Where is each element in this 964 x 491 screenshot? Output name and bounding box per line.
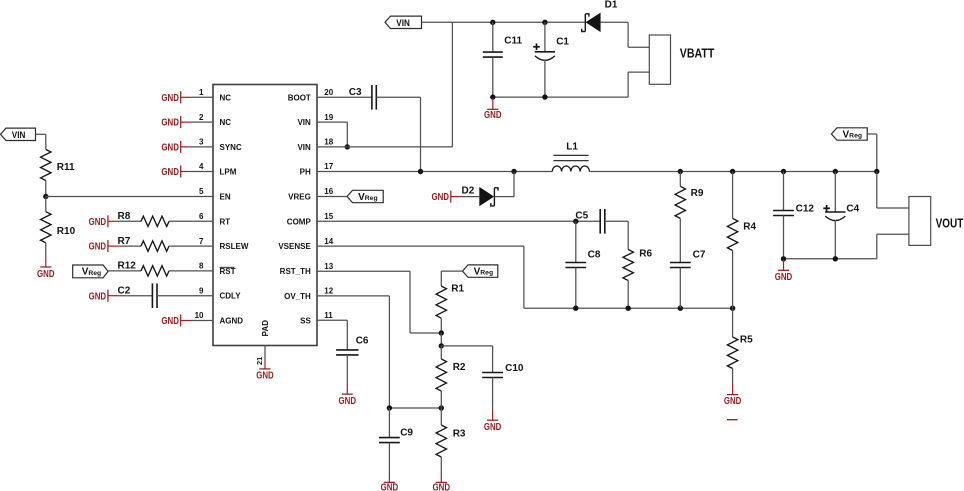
resistor R5 <box>727 308 753 368</box>
svg-text:VREG: VREG <box>288 193 311 202</box>
vreg port R12 <box>73 265 108 278</box>
wire vin to R11 <box>36 134 46 149</box>
wire D1 to VBATT <box>601 22 650 47</box>
svg-text:GND: GND <box>37 269 55 280</box>
resistor R3 <box>436 425 466 457</box>
svg-text:VIN: VIN <box>297 143 311 152</box>
pin 10 AGND label and number <box>195 311 244 325</box>
svg-text:R4: R4 <box>743 221 756 232</box>
svg-text:GND: GND <box>89 291 107 302</box>
diode D2 schottky <box>462 186 499 207</box>
wire pin 1 <box>192 96 213 98</box>
svg-text:RSLEW: RSLEW <box>220 242 249 251</box>
svg-text:19: 19 <box>324 113 333 122</box>
capacitor C6 <box>336 335 369 355</box>
svg-text:VSENSE: VSENSE <box>278 242 311 251</box>
svg-text:GND: GND <box>775 272 793 283</box>
vin port top <box>385 16 422 29</box>
wire C2 to pin 9 <box>157 295 213 297</box>
svg-text:13: 13 <box>324 262 333 271</box>
node R6 rail <box>626 306 631 311</box>
vreg port R1 <box>463 265 498 278</box>
svg-text:8: 8 <box>199 262 204 271</box>
wire VBATT lower <box>628 72 649 97</box>
wire pin 3 <box>192 146 213 148</box>
svg-text:C7: C7 <box>693 250 706 261</box>
node C12 on rail <box>781 169 786 174</box>
wire R11 to EN node <box>45 181 47 197</box>
svg-text:9: 9 <box>199 286 204 295</box>
connector VOUT <box>909 197 963 246</box>
wire gnd to C2 <box>119 295 152 297</box>
pin 17 PH label and number <box>300 162 334 176</box>
pin 19 VIN label and number <box>297 113 333 127</box>
wire C5 to R6 <box>605 221 628 249</box>
svg-text:VBATT: VBATT <box>680 45 715 60</box>
wire pin 12 OV_TH <box>317 296 389 408</box>
pin 6 RT label and number <box>199 212 230 226</box>
svg-text:OV_TH: OV_TH <box>284 292 311 301</box>
wire node to R2 <box>440 346 442 359</box>
svg-text:VOUT: VOUT <box>936 215 964 230</box>
op-amp U1 regulator IC body <box>213 85 317 346</box>
capacitor C9 <box>379 408 413 443</box>
svg-text:C2: C2 <box>118 286 131 297</box>
node C1 bottom <box>542 94 547 99</box>
node C1 top <box>542 20 547 25</box>
pin 8 RST label and number <box>199 262 236 276</box>
resistor R7 <box>118 236 170 251</box>
wire L1 to output rail <box>589 171 876 173</box>
svg-text:GND: GND <box>89 242 107 253</box>
pin 2 NC label and number <box>199 113 231 127</box>
svg-text:VIN: VIN <box>12 130 26 141</box>
pin 9 CDLY label and number <box>199 286 241 300</box>
pin 21 PAD label <box>261 320 270 337</box>
node D2 on PH <box>511 169 516 174</box>
svg-text:NC: NC <box>220 93 232 102</box>
svg-text:GND: GND <box>256 370 274 381</box>
node C4 bottom <box>833 256 838 261</box>
ground tick pin 3 <box>161 141 192 154</box>
svg-text:D2: D2 <box>462 186 475 197</box>
node C11 bottom <box>490 94 495 99</box>
ground tick pin 1 <box>161 91 192 104</box>
capacitor C3 <box>349 85 377 110</box>
node R4 on PH <box>730 169 735 174</box>
svg-text:R9: R9 <box>691 188 704 199</box>
ground below R10 <box>37 243 55 280</box>
pin 1 NC label and number <box>199 88 231 102</box>
pin 13 RST_TH label and number <box>280 262 334 276</box>
wire ovth rail <box>389 407 441 409</box>
resistor R8 <box>118 211 170 226</box>
svg-text:GND: GND <box>161 167 179 178</box>
resistor R6 <box>623 249 653 281</box>
wire vreg to R12 <box>108 270 141 272</box>
resistor R12 <box>118 261 170 276</box>
node vout branch <box>874 169 879 174</box>
svg-text:10: 10 <box>195 311 204 320</box>
ground tick pin 9 <box>89 290 120 303</box>
capacitor C5 <box>575 209 604 234</box>
node C11 top <box>490 20 495 25</box>
vreg port top right <box>831 128 867 141</box>
svg-text:6: 6 <box>199 212 204 221</box>
svg-text:VIN: VIN <box>297 118 311 127</box>
svg-text:CDLY: CDLY <box>220 292 242 301</box>
svg-text:16: 16 <box>324 187 333 196</box>
pin 18 VIN label and number <box>297 138 333 152</box>
ground pin 21 <box>256 359 274 382</box>
svg-text:17: 17 <box>324 162 333 171</box>
svg-text:C12: C12 <box>796 203 815 214</box>
svg-text:D1: D1 <box>605 0 618 10</box>
wire R8 to pin 6 <box>169 220 213 222</box>
ground tick pin 2 <box>161 116 192 129</box>
svg-text:GND: GND <box>89 217 107 228</box>
svg-text:RT: RT <box>220 217 231 226</box>
svg-text:C8: C8 <box>588 250 601 261</box>
capacitor C8 <box>565 221 600 308</box>
wire R1 to node <box>440 318 442 333</box>
wire gnd to D2 <box>462 196 479 198</box>
wire pin 18 VIN <box>317 146 452 148</box>
wire pin 19 <box>317 122 347 147</box>
svg-text:GND: GND <box>484 422 502 433</box>
svg-text:R2: R2 <box>453 362 466 373</box>
ground tick pin 10 <box>161 315 192 328</box>
node C7 rail <box>678 306 683 311</box>
pin 20 BOOT label and number <box>288 88 334 102</box>
wire vin top rail <box>422 21 586 23</box>
svg-text:C4: C4 <box>846 203 859 214</box>
svg-text:3: 3 <box>199 138 204 147</box>
svg-text:12: 12 <box>324 287 333 296</box>
ground below C10 <box>484 378 502 433</box>
pin 12 OV_TH label and number <box>284 287 334 301</box>
svg-text:SS: SS <box>300 316 311 325</box>
pin 14 VSENSE label and number <box>278 237 333 251</box>
node R4 R5 rail <box>730 306 735 311</box>
svg-text:1: 1 <box>199 88 204 97</box>
wire gnd to R7 <box>119 245 141 247</box>
vreg port pin 16 <box>317 190 383 203</box>
stray dash below R5 gnd <box>727 419 738 421</box>
pin 3 SYNC label and number <box>199 138 242 152</box>
svg-text:R3: R3 <box>453 428 466 439</box>
connector VBATT <box>649 35 714 84</box>
wire pin 14 VSENSE <box>317 246 524 308</box>
svg-text:R10: R10 <box>57 226 76 237</box>
diode D1 schottky <box>582 0 618 32</box>
svg-text:C1: C1 <box>556 36 569 47</box>
resistor R10 <box>41 212 76 243</box>
svg-text:21: 21 <box>255 357 264 365</box>
svg-text:2: 2 <box>199 113 204 122</box>
svg-text:GND: GND <box>484 110 502 121</box>
svg-text:GND: GND <box>432 192 450 203</box>
wire node to R3 <box>440 408 442 425</box>
node C8 rail <box>573 306 578 311</box>
wire vreg to rail <box>867 134 877 172</box>
wire R7 to pin 7 <box>169 245 213 247</box>
svg-text:GND: GND <box>433 483 451 491</box>
resistor R1 <box>436 284 464 319</box>
capacitor C10 <box>482 363 524 378</box>
svg-text:4: 4 <box>199 162 204 171</box>
ground below C11 <box>484 98 502 121</box>
resistor R2 <box>436 359 466 391</box>
wire gnd to R8 <box>119 220 141 222</box>
svg-text:LPM: LPM <box>220 168 237 177</box>
wire EN node to R10 <box>45 197 47 212</box>
wire pin 17 PH rail <box>317 171 552 173</box>
wire pin 20 to C3 <box>317 96 372 98</box>
svg-text:C11: C11 <box>504 36 522 47</box>
node EN junction <box>43 194 48 199</box>
resistor R4 <box>727 172 756 251</box>
pin 4 LPM label and number <box>199 162 237 176</box>
wire R4 to rail <box>732 251 734 309</box>
resistor R11 <box>41 149 75 180</box>
wire D2 to PH <box>494 172 514 197</box>
ground tick pin 6 <box>89 215 120 228</box>
pin 11 SS label and number <box>300 311 333 325</box>
pin 15 COMP label and number <box>287 212 334 226</box>
capacitor C1 polarized <box>533 22 569 97</box>
svg-text:NC: NC <box>220 118 232 127</box>
svg-text:R11: R11 <box>57 162 75 173</box>
svg-text:PAD: PAD <box>261 320 270 337</box>
svg-text:R5: R5 <box>740 334 753 345</box>
node C4 on rail <box>833 169 838 174</box>
svg-text:5: 5 <box>199 187 204 196</box>
node R2 C10 branch <box>439 343 444 348</box>
node R2 R3 junction <box>439 405 444 410</box>
ground tick D2 <box>432 191 463 204</box>
pin 7 RSLEW label and number <box>199 237 249 251</box>
svg-text:L1: L1 <box>566 142 578 153</box>
node C3 on PH <box>418 169 423 174</box>
svg-text:GND: GND <box>161 118 179 129</box>
wire pin 2 <box>192 121 213 123</box>
svg-text:AGND: AGND <box>220 317 244 326</box>
wire top ground rail <box>493 96 628 98</box>
inductor L1 <box>552 142 589 172</box>
wire vin down to pin 18 <box>451 22 453 147</box>
svg-text:R12: R12 <box>118 261 137 272</box>
wire rail to VOUT upper <box>877 172 909 209</box>
svg-text:C6: C6 <box>356 335 369 346</box>
wire pin 10 <box>192 320 213 322</box>
wire EN to pin 5 <box>46 196 213 198</box>
svg-text:GND: GND <box>381 483 399 491</box>
svg-text:GND: GND <box>161 143 179 154</box>
node pin19 to pin18 <box>345 144 350 149</box>
wire node to node <box>440 333 442 346</box>
wire C3 to PH drop <box>376 97 420 171</box>
wire R2 to node <box>440 391 442 408</box>
svg-text:C10: C10 <box>505 363 524 374</box>
pin 16 VREG label and number <box>288 187 334 201</box>
svg-text:R8: R8 <box>118 211 131 222</box>
svg-text:RST_TH: RST_TH <box>280 267 311 276</box>
svg-text:15: 15 <box>324 212 333 221</box>
svg-text:BOOT: BOOT <box>288 93 311 102</box>
ground below C12 <box>775 259 793 283</box>
svg-text:20: 20 <box>324 88 333 97</box>
svg-text:COMP: COMP <box>287 217 312 226</box>
node C9 junction <box>387 405 392 410</box>
svg-text:C5: C5 <box>575 210 588 221</box>
svg-text:11: 11 <box>324 311 333 320</box>
svg-text:R1: R1 <box>451 284 464 295</box>
capacitor C7 <box>670 218 706 308</box>
wire output ground rail <box>784 258 877 260</box>
wire vsense rail <box>524 307 733 309</box>
capacitor C2 <box>118 283 158 308</box>
ground below R5 <box>724 369 742 408</box>
ground tick pin 7 <box>89 240 120 253</box>
capacitor C11 <box>483 22 523 97</box>
ground below C9 <box>381 443 399 491</box>
svg-text:VIN: VIN <box>396 18 410 29</box>
resistor R9 <box>675 172 704 219</box>
vin port left <box>1 128 36 141</box>
svg-text:PH: PH <box>300 168 311 177</box>
capacitor C4 polarized <box>823 172 859 259</box>
wire pin 15 COMP <box>317 220 600 222</box>
svg-text:R7: R7 <box>118 236 131 247</box>
ground below R3 <box>433 457 451 491</box>
svg-text:C3: C3 <box>349 87 362 98</box>
svg-text:GND: GND <box>339 396 357 407</box>
wire branch to C10 <box>441 346 492 373</box>
wire pin 11 SS <box>317 320 347 350</box>
wire pin 4 <box>192 171 213 173</box>
pin 5 EN label and number <box>199 187 231 201</box>
svg-text:GND: GND <box>724 396 742 407</box>
svg-text:7: 7 <box>199 237 204 246</box>
wire R12 to pin 8 <box>169 270 213 272</box>
ground below C6 <box>339 355 357 407</box>
wire pad pin 21 <box>255 346 265 366</box>
svg-text:14: 14 <box>324 237 333 246</box>
svg-text:18: 18 <box>324 138 333 147</box>
node R1 RST_TH <box>439 330 444 335</box>
svg-text:SYNC: SYNC <box>220 143 242 152</box>
svg-text:R6: R6 <box>639 249 652 260</box>
node C12 bottom <box>781 256 786 261</box>
wire VOUT lower <box>877 234 909 259</box>
wire pin 13 RST_TH <box>317 271 441 333</box>
capacitor C12 <box>773 172 814 259</box>
node C5 C8 junction <box>573 219 578 224</box>
svg-text:GND: GND <box>161 93 179 104</box>
svg-text:RST: RST <box>220 267 236 276</box>
wire vreg to R1 <box>441 271 462 286</box>
svg-text:C9: C9 <box>400 427 413 438</box>
ground tick pin 4 <box>161 166 192 179</box>
svg-text:GND: GND <box>161 316 179 327</box>
svg-text:EN: EN <box>220 193 231 202</box>
node R9 on PH <box>678 169 683 174</box>
wire R6 to rail <box>627 281 629 309</box>
